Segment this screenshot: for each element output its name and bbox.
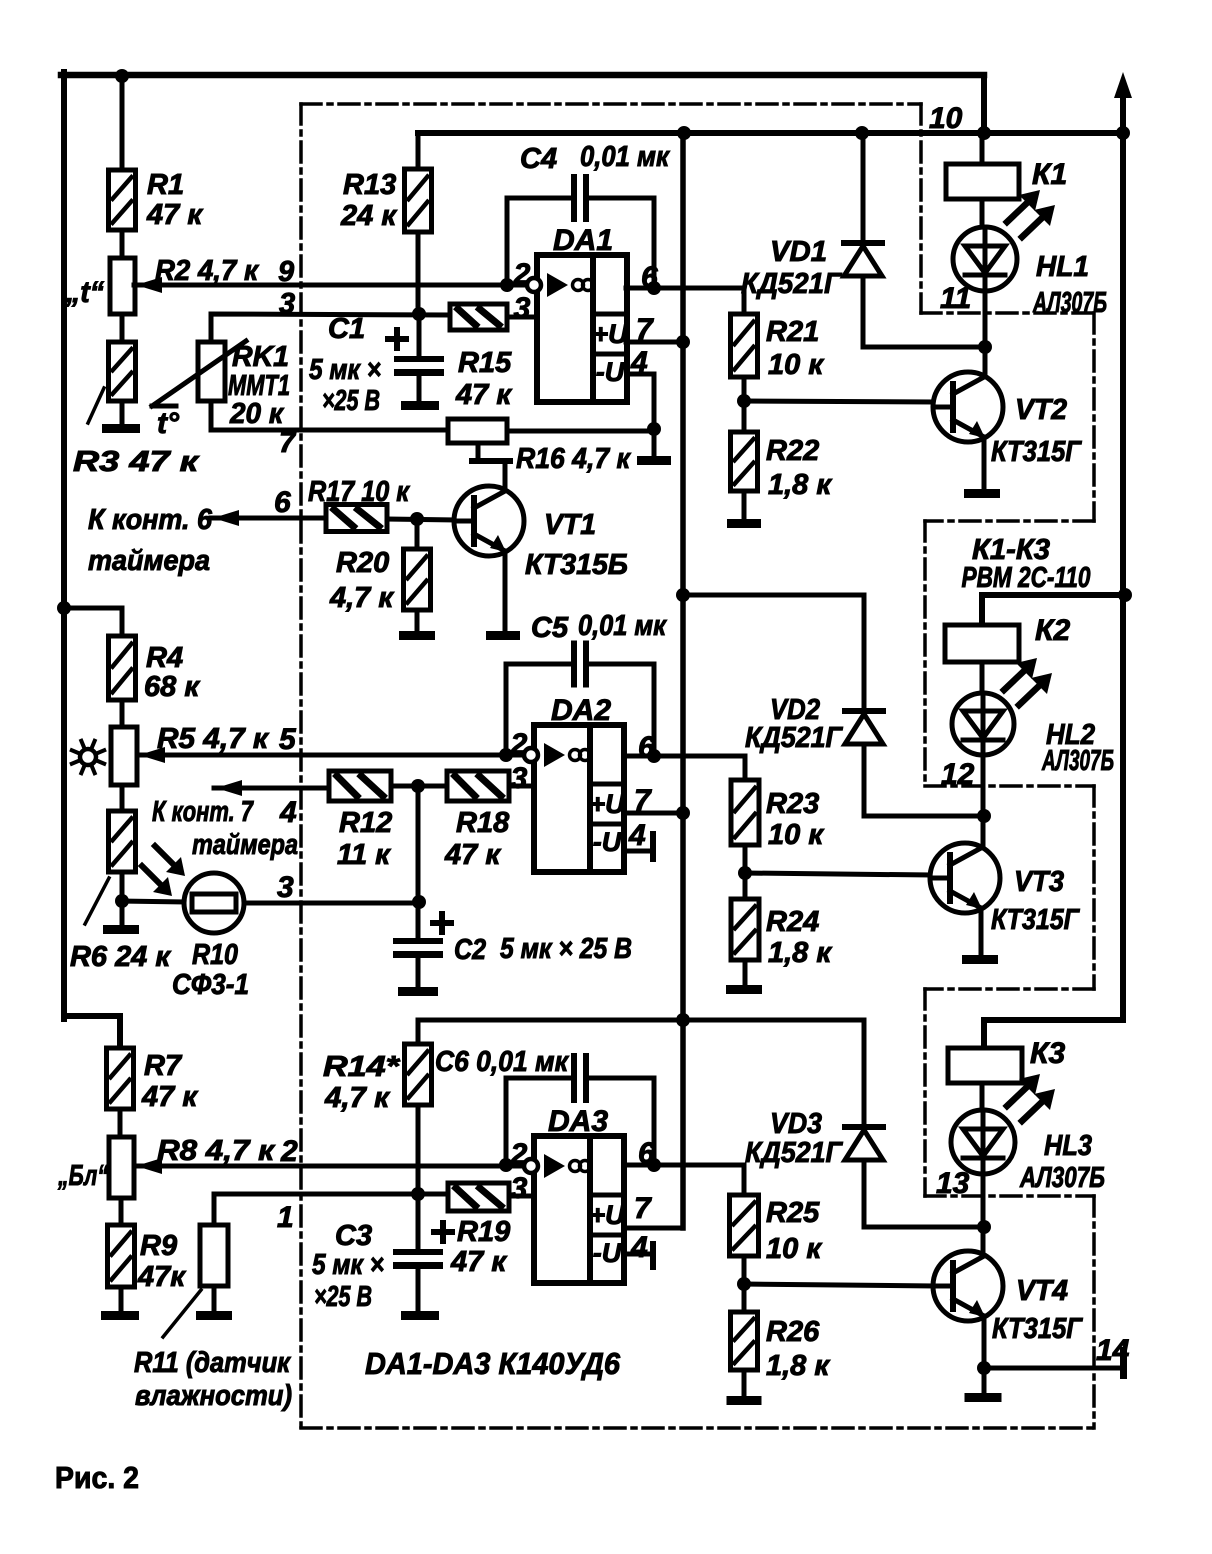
wire VD2 top (862, 595, 867, 711)
wire rail to K1 (980, 133, 985, 164)
wire R5 wiper to DA2 pin2 (137, 753, 534, 758)
wire R16 right to ground node (507, 429, 654, 434)
op-amp DA3 (524, 1136, 626, 1283)
svg-text:1,8 к: 1,8 к (766, 1350, 830, 1382)
wire R18 to pin3 (509, 784, 534, 789)
svg-text:VD1: VD1 (770, 236, 827, 268)
svg-text:10: 10 (929, 102, 963, 135)
junction pin7 DA2 (676, 806, 690, 820)
wire R1-R2 (120, 230, 125, 258)
svg-text:КТ315Б: КТ315Б (525, 549, 628, 581)
svg-text:4: 4 (279, 796, 297, 829)
wire DA2 pin6 (627, 756, 745, 780)
junction R14/C3/wire1 (411, 1187, 425, 1201)
wire R4-R5 (120, 700, 125, 727)
junction pin7 DA1 (676, 335, 690, 349)
ground C1 (401, 401, 439, 410)
svg-text:4: 4 (628, 819, 646, 852)
wire K2 to HL2 (980, 662, 985, 694)
svg-text:C6 0,01 мк: C6 0,01 мк (435, 1046, 569, 1078)
svg-text:таймера: таймера (88, 545, 210, 577)
wire RK1 top to node3 (211, 314, 450, 342)
svg-text:АЛ307Б: АЛ307Б (1032, 287, 1107, 319)
svg-text:R9: R9 (140, 1230, 177, 1262)
junction rail/VD1 (855, 126, 869, 140)
svg-text:DA1: DA1 (553, 224, 613, 257)
svg-text:R17 10 к: R17 10 к (308, 476, 410, 508)
wire R8-R9 (119, 1198, 124, 1225)
pointer line R6 (85, 878, 109, 924)
capacitor C4 (571, 174, 589, 222)
wire R3 to ground (120, 401, 125, 424)
op-amp DA2 (524, 725, 626, 872)
resistor R15 (450, 304, 507, 330)
svg-text:R18: R18 (456, 807, 510, 839)
ground R24 (726, 985, 762, 994)
junction rail/DA bus (677, 126, 691, 140)
wire VT4 emitter (982, 1316, 987, 1393)
module boundary dash-dot notch4 v (923, 989, 927, 1196)
wire C3 to ground (416, 1266, 421, 1311)
svg-text:R23: R23 (766, 788, 819, 820)
transistor VT1 (454, 486, 524, 556)
wire R12 node down to C2 (416, 786, 421, 938)
photoresistor R10 (184, 873, 244, 933)
svg-text:R7: R7 (144, 1050, 183, 1082)
wire R2 wiper to DA1 pin2 (134, 283, 537, 288)
svg-text:3: 3 (514, 292, 531, 325)
ground R9 (101, 1311, 139, 1320)
junction C5/pin6 (647, 749, 661, 763)
resistor R12 (329, 771, 391, 801)
svg-text:3: 3 (511, 762, 528, 795)
wire DA3 pin7 to bus (627, 1226, 683, 1231)
svg-text:3: 3 (277, 871, 294, 904)
svg-text:R14*: R14* (323, 1051, 401, 1083)
ground R22 (727, 519, 761, 528)
wire R5-R6 (120, 785, 125, 811)
potentiometer R8 (109, 1137, 134, 1198)
ground VT3 (962, 955, 998, 964)
module boundary dash-dot notch4 h (925, 987, 1094, 991)
relay K1 (946, 164, 1019, 199)
capacitor C5 (571, 641, 589, 688)
wire VD3 top (862, 1020, 867, 1127)
junction rail/right bus (1116, 126, 1130, 140)
ground C2 (398, 987, 438, 996)
svg-text:R20: R20 (336, 547, 389, 579)
svg-text:КД521Г: КД521Г (745, 722, 843, 754)
LED HL2 (952, 693, 1014, 755)
wire K1 to HL1 (980, 199, 985, 228)
svg-text:C1: C1 (328, 313, 365, 345)
svg-text:HL1: HL1 (1036, 251, 1089, 283)
svg-text:РВМ 2С-110: РВМ 2С-110 (962, 562, 1091, 594)
svg-text:АЛ307Б: АЛ307Б (1019, 1162, 1105, 1194)
wire DA2 pin7 to bus (627, 811, 683, 816)
svg-text:2: 2 (280, 1135, 298, 1168)
svg-text:КТ315Г: КТ315Г (991, 436, 1082, 468)
module boundary dash-dot notch5 h (925, 1194, 1094, 1198)
svg-text:3: 3 (511, 1172, 528, 1205)
module boundary dash-dot left (299, 104, 303, 1428)
svg-text:влажности): влажности) (135, 1380, 292, 1412)
resistor R22 (731, 432, 758, 491)
resistor R9 (108, 1225, 135, 1287)
resistor R20 (404, 549, 431, 610)
wire DA3 pin6 (627, 1165, 744, 1195)
wire R2-R3 (120, 314, 125, 342)
svg-text:0,01 мк: 0,01 мк (580, 141, 670, 173)
svg-text:R16 4,7 к: R16 4,7 к (516, 443, 631, 475)
svg-text:К конт. 6: К конт. 6 (88, 504, 213, 536)
svg-text:R4: R4 (146, 642, 183, 674)
wire VD1 top (861, 133, 866, 243)
svg-text:-U: -U (593, 1238, 623, 1268)
module boundary dash-dot right lower (1092, 1196, 1096, 1428)
wire R19 to pin3 (509, 1194, 534, 1199)
ground R11 (196, 1311, 232, 1320)
junction R6/R10 (115, 894, 129, 908)
svg-text:Рис. 2: Рис. 2 (55, 1460, 139, 1495)
svg-text:47 к: 47 к (146, 199, 203, 231)
transistor VT4 (933, 1251, 1003, 1321)
svg-text:RK1: RK1 (232, 341, 289, 373)
svg-text:К1: К1 (1032, 158, 1067, 191)
pointer line R3 (88, 388, 104, 423)
svg-text:2: 2 (510, 728, 528, 761)
wire C5 right loop (589, 664, 654, 756)
resistor R18 (447, 771, 509, 801)
svg-text:13: 13 (936, 1167, 970, 1200)
junction VT4 emitter/pin14 (977, 1361, 991, 1375)
svg-text:VT4: VT4 (1016, 1275, 1068, 1307)
wire VD3 bottom to node (864, 1160, 984, 1227)
resistor R13 (405, 169, 432, 232)
junction R12/R18 (411, 779, 425, 793)
wire DA3 pin4 tick (627, 1252, 650, 1257)
wire VD1 bottom to node (863, 276, 985, 347)
svg-text:VT1: VT1 (544, 509, 596, 541)
module boundary dash-dot notch2 h (925, 519, 1094, 523)
svg-text:К конт. 7: К конт. 7 (152, 796, 254, 828)
wire pin4 DA1 down (626, 374, 654, 456)
wire right bus elbow to K3 (984, 1020, 1123, 1048)
wire К конт.7 (214, 786, 329, 791)
svg-text:47 к: 47 к (141, 1081, 198, 1113)
module boundary dash-dot right upper (919, 104, 923, 313)
ground R3 (102, 424, 140, 433)
svg-text:0,01 мк: 0,01 мк (578, 610, 667, 642)
resistor R14 (405, 1044, 432, 1105)
wire C4 right loop (589, 198, 654, 288)
svg-text:47 к: 47 к (444, 839, 501, 871)
svg-text:1: 1 (277, 1201, 294, 1234)
wire HL3 to VT4 (981, 1174, 986, 1252)
svg-text:R3 47 к: R3 47 к (73, 446, 200, 478)
trimmer R16 (448, 419, 507, 443)
svg-text:7: 7 (634, 1192, 652, 1225)
resistor R6 (109, 811, 136, 872)
svg-text:C5: C5 (531, 612, 569, 644)
svg-text:R25: R25 (766, 1197, 820, 1229)
svg-text:R22: R22 (766, 435, 819, 467)
svg-text:2: 2 (510, 1138, 528, 1171)
svg-text:14: 14 (1096, 1334, 1130, 1367)
module boundary dash-dot notch1 h (921, 311, 1094, 315)
svg-text:HL3: HL3 (1044, 1130, 1092, 1162)
wire K2 supply (982, 595, 1125, 625)
wire VD2 bottom to node (864, 744, 984, 816)
wire R9 to ground (119, 1287, 124, 1311)
junction right bus K2 (1118, 588, 1132, 602)
svg-text:R12: R12 (339, 807, 392, 839)
wire R17 to VT1 base (387, 519, 455, 520)
wire R11 top to wire1 (214, 1194, 448, 1225)
svg-text:+U: +U (589, 1200, 626, 1230)
wire main +U rail (418, 130, 1125, 136)
wire C6 right loop (589, 1078, 654, 1165)
wire top supply rail (61, 72, 984, 79)
junction C6/pin6 (647, 1158, 661, 1172)
trimmer R16 wiper (476, 443, 481, 459)
wire R11 to ground (212, 1286, 217, 1311)
resistor R19 (448, 1183, 509, 1211)
wire RK1 bottom to R16 (211, 401, 448, 430)
junction K2 node (977, 809, 991, 823)
svg-text:10 к: 10 к (768, 349, 824, 381)
pointer line R11 (163, 1290, 201, 1337)
svg-text:R19: R19 (457, 1216, 510, 1248)
junction VT2 base node (737, 394, 751, 408)
capacitor C2 (393, 938, 443, 958)
ground VT4 (965, 1393, 1002, 1402)
op-amp DA1 (527, 255, 629, 402)
svg-text:+U: +U (589, 789, 626, 819)
svg-text:КД521Г: КД521Г (745, 1137, 843, 1169)
module boundary dash-dot notch1 v (1092, 313, 1096, 521)
thermistor RK1 (198, 342, 225, 401)
wire R22 to ground (742, 491, 747, 519)
svg-text:47к: 47к (137, 1261, 186, 1293)
svg-text:×25 В: ×25 В (314, 1281, 372, 1313)
wire VT2 emitter (982, 437, 987, 489)
svg-text:R21: R21 (766, 316, 819, 348)
capacitor C5 left loop (506, 664, 571, 755)
humidity sensor R11 (200, 1225, 228, 1286)
wire left bus to R7 (64, 1016, 120, 1048)
capacitor C6 (571, 1053, 589, 1103)
svg-text:C2: C2 (454, 934, 486, 966)
svg-text:4,7 к: 4,7 к (324, 1082, 390, 1114)
wire R23-R24 (743, 845, 748, 899)
wire DA1 pin7 to bus (626, 340, 683, 345)
svg-text:VT3: VT3 (1014, 866, 1064, 898)
wire DA2 pin4 tick (627, 849, 650, 854)
diode VD3 (845, 1127, 883, 1160)
svg-text:1,8 к: 1,8 к (768, 937, 832, 969)
svg-text:1,8 к: 1,8 к (768, 469, 832, 501)
module boundary dash-dot top (301, 102, 921, 106)
transistor VT2 (933, 372, 1003, 442)
svg-text:3: 3 (279, 288, 295, 320)
wire left bus to R4 (64, 608, 122, 636)
svg-text:R11 (датчик: R11 (датчик (134, 1347, 291, 1379)
svg-text:7: 7 (279, 427, 297, 459)
resistor R3 (109, 342, 136, 401)
junction top-left (115, 69, 129, 83)
svg-text:КТ315Г: КТ315Г (991, 904, 1080, 936)
diode VD2 (845, 711, 883, 744)
svg-text:47 к: 47 к (450, 1246, 507, 1278)
svg-text:R5 4,7 к: R5 4,7 к (157, 723, 269, 755)
wire R13 top to rail (416, 133, 421, 169)
svg-text:2: 2 (513, 258, 531, 291)
potentiometer R2 (110, 258, 135, 314)
resistor R17 (326, 505, 387, 532)
wire C4 left loop (507, 198, 571, 285)
resistor R25 (730, 1195, 759, 1256)
svg-text:5 мк ×: 5 мк × (312, 1249, 384, 1281)
junction rail/K1 column (977, 126, 991, 140)
svg-text:VD3: VD3 (770, 1108, 822, 1140)
wire R12-R18 (391, 784, 447, 789)
wire R10 right (244, 901, 419, 906)
junction VT4 base node (737, 1277, 751, 1291)
wire DA bus vertical (680, 133, 686, 1228)
junction K1 node (978, 340, 992, 354)
svg-text:-U: -U (593, 827, 623, 857)
svg-text:АЛ307Б: АЛ307Б (1041, 745, 1114, 777)
svg-text:C3: C3 (335, 1220, 372, 1252)
LED HL1 (953, 227, 1017, 291)
svg-text:R10: R10 (192, 939, 238, 971)
svg-text:„t“: „t“ (65, 276, 104, 309)
wire C6 left loop (506, 1078, 571, 1165)
svg-text:DA3: DA3 (548, 1105, 608, 1138)
light symbol (72, 741, 104, 773)
ground R16/pin4 (637, 456, 671, 465)
svg-text:VT2: VT2 (1015, 394, 1067, 426)
wire R10 left (122, 901, 184, 902)
svg-text:6: 6 (274, 486, 291, 519)
wire right supply bus down (1120, 133, 1126, 1020)
svg-text:R1: R1 (147, 169, 184, 201)
junction R10/C2 (412, 895, 426, 909)
svg-text:68 к: 68 к (144, 671, 200, 703)
svg-text:24 к: 24 к (340, 200, 397, 232)
module boundary dash-dot notch2 v (923, 521, 927, 786)
wire left vertical bus (61, 72, 67, 1019)
wire R14 col (416, 1020, 421, 1044)
wire VT3 emitter (979, 908, 984, 955)
potentiometer R5 (111, 727, 137, 785)
svg-text:R6 24 к: R6 24 к (70, 941, 171, 973)
ground VT1 (486, 631, 520, 640)
svg-text:-U: -U (596, 357, 626, 387)
svg-text:C4: C4 (520, 143, 557, 175)
wire R15 to pin3 (507, 315, 537, 320)
wire DA1 pin6 (626, 288, 744, 314)
svg-text:„Бл“: „Бл“ (57, 1160, 108, 1192)
resistor R21 (731, 314, 758, 377)
wire C1 stem (417, 314, 422, 356)
wire R1 column stem (120, 76, 125, 170)
module boundary dash-dot notch3 v (1092, 786, 1096, 989)
junction C4/pin2 (500, 278, 514, 292)
relay K3 (948, 1048, 1022, 1083)
capacitor C3 (393, 1249, 443, 1269)
svg-text:R24: R24 (766, 906, 819, 938)
wire HL1 to VT2 (983, 291, 988, 375)
svg-text:КТ315Г: КТ315Г (992, 1313, 1083, 1345)
svg-text:КД521Г: КД521Г (741, 268, 842, 300)
ground R26 (727, 1396, 762, 1405)
wire R26 to ground (742, 1370, 747, 1396)
wire top bus drop to K1 column (981, 75, 987, 133)
junction C6/pin2 (499, 1158, 513, 1172)
wire VT1 emitter (503, 551, 508, 631)
svg-text:R8 4,7 к: R8 4,7 к (157, 1135, 275, 1167)
svg-text:6: 6 (638, 731, 655, 764)
wire base VT3 (745, 873, 930, 875)
svg-text:10 к: 10 к (766, 1233, 822, 1265)
svg-text:R2 4,7 к: R2 4,7 к (155, 255, 259, 287)
svg-text:таймера: таймера (192, 829, 298, 861)
svg-text:5 мк ×: 5 мк × (309, 354, 381, 386)
junction R17/R20 (410, 512, 424, 526)
junction C5/pin2 (499, 748, 513, 762)
svg-text:47 к: 47 к (455, 379, 512, 411)
svg-text:4: 4 (630, 346, 648, 379)
resistor R7 (107, 1048, 134, 1109)
svg-text:11: 11 (940, 282, 971, 315)
wire rail3 (418, 1018, 864, 1023)
wire R7-R8 (118, 1109, 123, 1137)
module boundary dash-dot notch3 h (925, 784, 1094, 788)
junction C4/pin6 (647, 281, 661, 295)
junction K3 node (977, 1220, 991, 1234)
svg-text:R13: R13 (343, 169, 396, 201)
resistor R1 (109, 170, 136, 230)
ground R6 (103, 925, 139, 934)
ground C3 (401, 1311, 439, 1320)
junction left bus ch2 (57, 601, 71, 615)
svg-text:DA2: DA2 (551, 694, 611, 727)
svg-text:11 к: 11 к (337, 839, 391, 871)
ground R20 (399, 631, 435, 640)
relay K2 (945, 625, 1019, 662)
svg-text:5: 5 (279, 723, 297, 756)
junction bus/VD2 rail (676, 588, 690, 602)
transistor VT3 (930, 843, 1000, 913)
wire base VT2 (744, 401, 933, 402)
capacitor C1 (394, 356, 444, 376)
junction bus/rail3 (676, 1013, 690, 1027)
wire right supply bus with arrow (1120, 90, 1126, 133)
svg-text:20 к: 20 к (229, 398, 284, 430)
wire pin 14 (984, 1366, 1121, 1371)
junction VT3 base node (738, 866, 752, 880)
svg-text:10 к: 10 к (768, 819, 824, 851)
svg-text:R15: R15 (458, 347, 512, 379)
wire DA bus to VD2 rail (683, 593, 864, 598)
module boundary dash-dot bottom (301, 1426, 1094, 1430)
wire R20 stem (415, 519, 420, 549)
svg-text:СФ3-1: СФ3-1 (172, 969, 249, 1001)
LED HL3 (951, 1110, 1015, 1174)
svg-text:×25 В: ×25 В (322, 385, 380, 417)
